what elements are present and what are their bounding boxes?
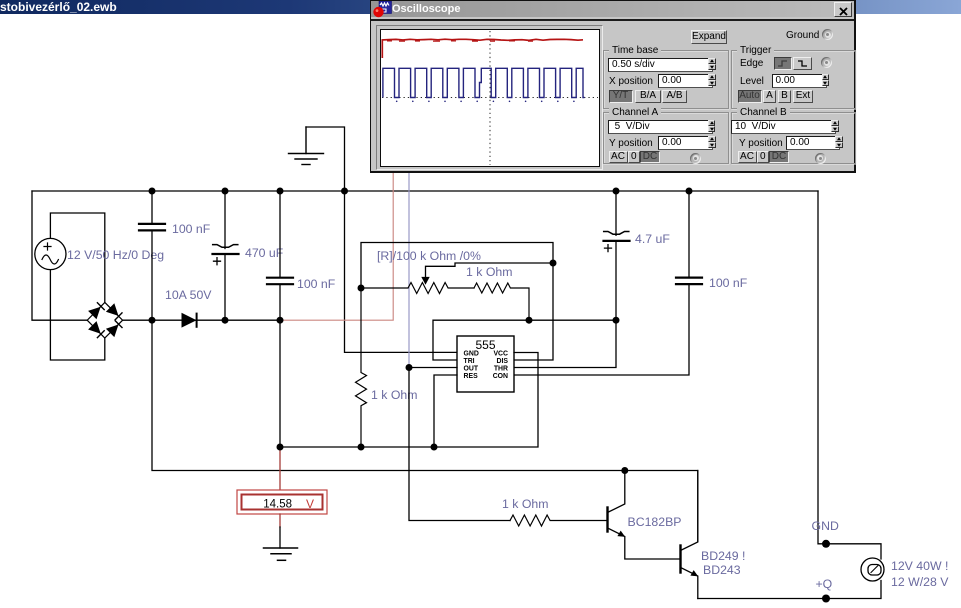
Level field [772,74,827,88]
button DC A pressed [640,151,660,163]
Ground radio [822,29,833,40]
wire emitter bus to lamp [698,581,881,599]
svg-text:VCC: VCC [493,351,508,358]
svg-text:DIS: DIS [497,358,509,365]
junction vbus x361 [358,444,365,451]
bridge diode top-left [89,303,104,318]
edge falling button [793,57,812,70]
button Ext [793,90,813,103]
junction rail x616 [613,188,620,195]
Ground label [786,30,819,41]
capacitor C4 4.7 uF electrolytic [604,191,630,320]
wire TRI-THR node [433,320,616,360]
button Auto pressed [738,90,762,103]
junction pot left [358,285,365,292]
transistor Q2 BD249 [681,471,698,599]
diode D1 10A 50V [182,314,197,327]
button DC B pressed [769,151,789,163]
button AC A [609,151,628,163]
wire left vertical from rail to bridge [32,191,87,320]
svg-text:10A 50V: 10A 50V [165,288,212,302]
svg-text:OUT: OUT [464,366,479,373]
svg-text:100 nF: 100 nF [172,222,211,236]
svg-text:BD249 !: BD249 ! [701,549,745,563]
close button [834,2,852,17]
channel A trace (red) [382,39,583,58]
button Y/T pressed [609,90,633,103]
capacitor C1 100 nF [139,191,165,320]
wire channel A probe (red) [280,171,393,320]
junction collector feed [621,467,628,474]
bridge diode bottom-right [107,321,122,336]
resistor R3 1 k Ohm vertical [356,288,367,447]
junction rail x225 [222,188,229,195]
junction vbus x280 [277,444,284,451]
Y position label A [609,138,653,149]
potentiometer R1 loop wire to DIS [361,243,553,361]
voltmeter M1 [237,490,327,514]
junction DIS pot [550,260,557,267]
trigger radio [821,57,832,68]
ground symbol top [289,127,324,165]
AC source V1 [35,238,66,269]
channel B trace undershoot dots [396,101,575,103]
scope title bar [371,1,854,17]
Level label [740,76,764,87]
wire DC+ bus from bridge to caps [123,319,280,321]
edge rising button pressed [774,57,792,70]
junction rail x344 [341,188,348,195]
svg-text:[R]/100 k Ohm /0%: [R]/100 k Ohm /0% [377,249,481,263]
svg-text:14.58: 14.58 [263,499,292,511]
svg-text:CON: CON [493,373,508,380]
svg-text:GND: GND [464,351,479,358]
scope display bezel [376,25,603,170]
bridge diode top-right [107,305,122,320]
junction bus x225 [222,317,229,324]
capacitor C5 100 nF (CON) [514,191,702,375]
svg-text:100 nF: 100 nF [297,277,336,291]
capacitor C3 100 nF [267,191,293,447]
wire rail down right side to lamp top [818,191,881,559]
Y position field B [786,136,840,150]
connector +Q node [822,595,830,603]
channel A radio [690,153,701,164]
capacitor C2 470 uF electrolytic [213,191,239,320]
Edge label [740,58,763,69]
wire ground to rail and down to 555 GND [306,127,457,352]
555 timer U1 [457,336,514,392]
bridge rectifier diamond outline [87,302,122,338]
junction timing node x529 [526,317,533,324]
junction bus x280 [277,317,284,324]
wire channel B probe (blue) [408,171,410,368]
AC source V1 bottom lead wire [50,269,104,360]
potentiometer R1 100k [361,263,553,294]
wire OUT down to base resistor [409,368,510,521]
junction OUT [406,364,413,371]
svg-text:100 nF: 100 nF [709,276,748,290]
group Trigger [731,50,856,109]
svg-text:TRI: TRI [464,358,475,365]
voltmeter bottom lead [279,514,281,527]
junction rail x280 [277,188,284,195]
AC source V1 top lead wire [50,213,104,302]
resistor R4 1 k Ohm base [510,515,606,526]
svg-text:4.7 uF: 4.7 uF [635,232,670,246]
group Time base [603,50,729,109]
screen dotted crosshair [489,31,491,165]
button B [778,90,791,103]
junction vbus x434 [431,444,438,451]
svg-text:12 W/28 V: 12 W/28 V [891,575,949,589]
svg-text:470 uF: 470 uF [245,246,284,260]
voltmeter wire red [279,447,281,490]
channel B vdiv field [731,120,836,134]
junction rail x689 [686,188,693,195]
lamp X1 [861,558,884,581]
X position field [658,74,713,88]
transistor Q1 BC182BP [608,471,680,560]
svg-text:GND: GND [812,519,839,533]
Y position field A [658,136,713,150]
button 0 A [628,151,640,163]
wire VCC-RES to V+ bus [280,353,538,448]
junction bus x152 [149,317,156,324]
svg-text:BD243: BD243 [703,563,741,577]
scope screen [380,29,600,167]
button B/A [635,90,661,103]
button A [763,90,776,103]
Y position label B [739,138,783,149]
Expand button [691,30,727,44]
junction timing node x616 [613,317,620,324]
button 0 B [757,151,769,163]
button AC B [738,151,757,163]
svg-text:1 k Ohm: 1 k Ohm [502,497,548,511]
svg-text:RES: RES [464,373,479,380]
wire top ground rail [32,190,818,192]
ground symbol bottom [264,548,298,560]
svg-text:12V 40W !: 12V 40W ! [891,559,948,573]
svg-text:THR: THR [494,366,508,373]
svg-text:+Q: +Q [816,577,833,591]
resistor R2 1 k Ohm [474,283,529,320]
svg-text:V: V [306,497,314,511]
channel A vdiv field [608,120,713,134]
channel B trace (blue square wave) [383,68,585,97]
X position label [609,76,653,87]
channel B radio [815,153,826,164]
svg-text:1 k Ohm: 1 k Ohm [371,388,417,402]
svg-text:1 k Ohm: 1 k Ohm [466,265,512,279]
oscilloscope window [370,0,856,173]
junction rail x152 [149,188,156,195]
wire V+ feed to output stage [152,320,698,541]
bridge diode bottom-left [89,322,104,337]
main window title bar [0,0,961,14]
group Channel A [603,112,729,164]
wire THR to node [514,320,616,367]
button A/B [662,90,687,103]
group Channel B [731,112,856,164]
connector GND node [822,540,830,548]
svg-text:BC182BP: BC182BP [628,515,682,529]
svg-text:12 V/50 Hz/0 Deg: 12 V/50 Hz/0 Deg [67,248,164,262]
time base field [608,58,713,72]
